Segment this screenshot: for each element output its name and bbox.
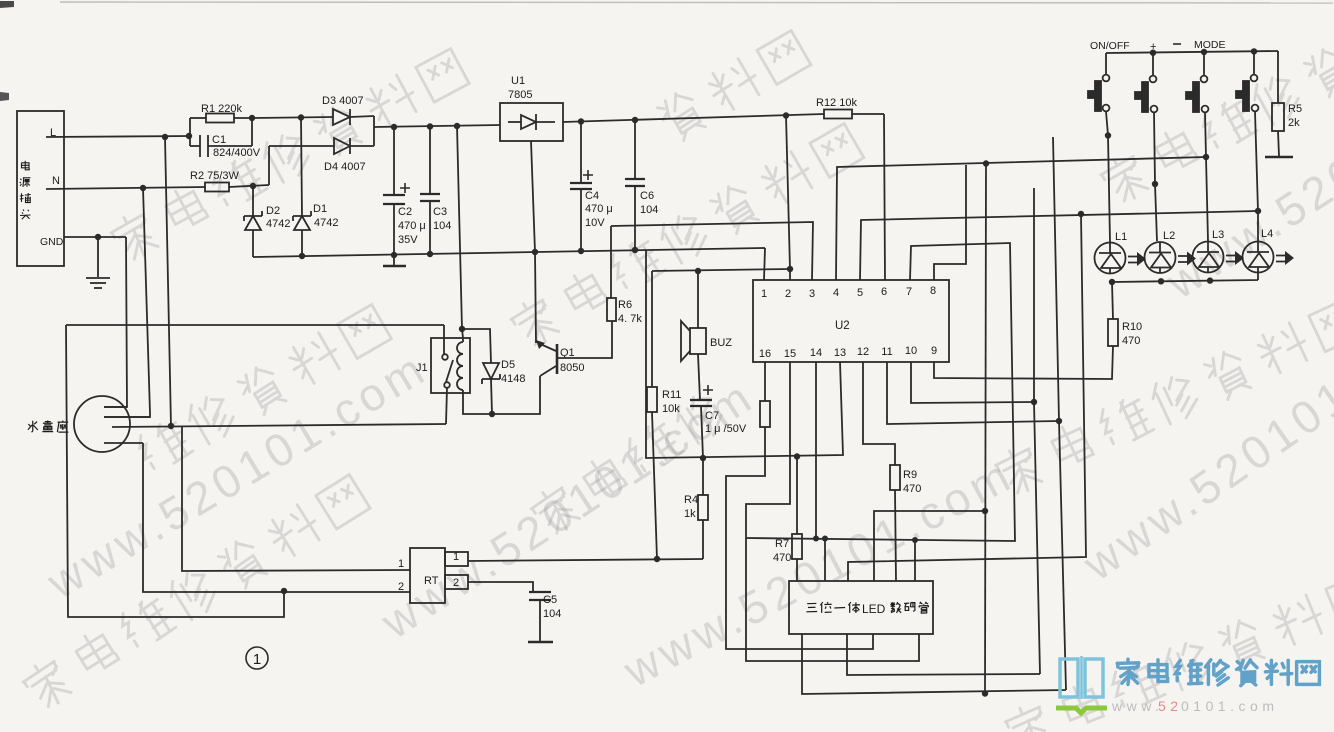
svg-text:R2 75/3W: R2 75/3W <box>190 170 240 182</box>
wire Q1 base to R6 <box>557 321 612 358</box>
node C4 top <box>578 118 584 124</box>
capacitor C2 <box>383 127 426 255</box>
switch S4 MODE <box>1236 51 1258 211</box>
scan smudge top-left <box>0 92 9 101</box>
resistor R7 <box>773 457 802 582</box>
resistor R4 <box>684 458 708 559</box>
svg-text:R10: R10 <box>1122 321 1142 333</box>
svg-text:4: 4 <box>833 287 839 299</box>
node C6 top <box>632 117 638 123</box>
wire U2 pin7 staircase to bottom maze <box>746 243 1015 541</box>
wire R6 top to U2 pin3 <box>611 222 813 280</box>
svg-text:MODE: MODE <box>1194 39 1226 51</box>
svg-text:7805: 7805 <box>508 89 532 101</box>
node pin11 on ONOFF riser <box>1056 418 1062 424</box>
svg-text:470: 470 <box>1122 335 1140 347</box>
node R11 bottom <box>654 556 660 562</box>
node L2 cathode <box>1158 278 1164 284</box>
node prong3 / L feed <box>168 423 174 429</box>
wire J1 contact top to left <box>66 325 444 354</box>
capacitor C6 <box>625 120 658 250</box>
wire prong4 down to RT pin2 <box>143 443 410 592</box>
wire U2 pin14 down <box>815 362 817 539</box>
node BUZ top <box>695 268 701 274</box>
wire pin4 net riser down <box>985 164 986 695</box>
capacitor C5 <box>528 592 561 642</box>
svg-text:3: 3 <box>809 288 815 300</box>
thermistor connector RT <box>398 548 468 603</box>
wire N to prong2 vertical <box>104 188 150 417</box>
node 985 bottom junction <box>982 690 988 696</box>
svg-text:C3: C3 <box>433 206 447 218</box>
node LED seg riser on maze line <box>822 536 828 542</box>
display box 三位一体LED数码管 <box>789 581 933 634</box>
wire display top pin riser d <box>914 540 916 581</box>
svg-text:2k: 2k <box>1288 117 1300 129</box>
wire U2 pin16 staircase <box>726 427 873 649</box>
wire BUZ supply line <box>652 269 790 271</box>
wire U2 pin10 to right riser <box>911 362 1034 403</box>
node D5 bottom <box>489 411 495 417</box>
svg-text:15: 15 <box>784 348 796 360</box>
svg-text:4742: 4742 <box>314 217 338 229</box>
svg-text:11: 11 <box>881 346 892 358</box>
wire relay coil top riser <box>457 126 463 338</box>
svg-text:0101.com: 0101.com <box>1181 698 1278 714</box>
svg-text:8: 8 <box>930 285 936 297</box>
wire L to prong3 vertical <box>165 137 171 426</box>
node R2 out / D2 top <box>250 183 256 189</box>
wire ON/OFF riser <box>1053 137 1066 690</box>
wire VDD riser to U2 pin2 <box>786 116 790 281</box>
label minus <box>1173 43 1181 45</box>
svg-text:J1: J1 <box>416 362 428 374</box>
wire left loop to RT pin2 line <box>66 325 284 617</box>
wire display seg riser c to pin4 net <box>874 511 985 581</box>
node plus bottom <box>1152 181 1158 187</box>
LED L4 <box>1243 228 1295 273</box>
svg-text:D2: D2 <box>266 205 280 217</box>
wire pin13 net horizontal <box>646 250 843 458</box>
wire ON/OFF to L1 <box>1108 136 1110 243</box>
svg-text:5: 5 <box>857 287 863 299</box>
zener D5 <box>462 329 525 414</box>
node R1 right <box>249 115 255 121</box>
wire D3/D4 join vertical <box>373 116 375 146</box>
node C3 top <box>427 123 433 129</box>
node U1 gnd on rail <box>532 249 538 255</box>
svg-text:R11: R11 <box>662 389 681 401</box>
node C4 bottom <box>578 248 584 254</box>
wire RT pin1 right to R11/R4 <box>468 559 703 561</box>
wire display bottom pin1 to ONOFF riser bottom <box>802 634 1066 694</box>
wire MODE to L4 <box>1257 211 1259 241</box>
svg-text:RT: RT <box>424 575 439 587</box>
svg-text:12: 12 <box>857 346 869 358</box>
svg-text:4. 7k: 4. 7k <box>618 313 642 325</box>
resistor R8 below pin16 <box>760 362 770 427</box>
wire plus to L2 <box>1155 184 1157 241</box>
svg-text:D4 4007: D4 4007 <box>324 161 366 173</box>
node C3 bottom <box>427 251 433 257</box>
svg-text:6: 6 <box>881 286 887 298</box>
svg-text:C4: C4 <box>585 190 599 202</box>
node on L to kettle <box>162 134 168 140</box>
node C6 bottom <box>632 247 638 253</box>
node riser d on maze line <box>912 537 918 543</box>
svg-text:+: + <box>1150 41 1156 53</box>
node on RT pin2 line <box>281 588 287 594</box>
scan edge line top <box>60 2 1333 3</box>
node D1 top <box>298 114 304 120</box>
svg-text:R12 10k: R12 10k <box>816 97 857 109</box>
wire LED cathode rail <box>1112 273 1258 282</box>
svg-text:1: 1 <box>398 558 404 570</box>
svg-text:D3 4007: D3 4007 <box>322 95 364 107</box>
svg-text:104: 104 <box>543 608 561 620</box>
wire D3/D4 node to U1 input <box>374 125 500 127</box>
svg-text:R5: R5 <box>1288 103 1302 115</box>
svg-text:470 μ: 470 μ <box>585 203 613 215</box>
svg-text:L4: L4 <box>1261 228 1273 240</box>
resistor R5 <box>1265 51 1302 157</box>
node rail b2 <box>1150 50 1156 56</box>
svg-text:104: 104 <box>433 220 451 232</box>
wire U2 pin4 to minus button <box>836 157 1206 280</box>
svg-text:35V: 35V <box>398 234 418 246</box>
wire top rail to D3 <box>252 117 333 118</box>
svg-text:2: 2 <box>785 288 791 300</box>
wire J1 contact bottom <box>446 388 447 424</box>
zener D1 <box>293 118 338 257</box>
svg-text:GND: GND <box>40 236 64 248</box>
wire U2 pin1 to ground rail <box>764 248 765 280</box>
logo green ribbon <box>1056 708 1107 713</box>
diode D3 <box>322 95 374 125</box>
svg-text:13: 13 <box>834 347 846 359</box>
wire U2 pin8 riser <box>934 165 966 280</box>
wire D4 anode down to R2 line <box>268 146 270 185</box>
node pin10 on plus riser <box>1031 399 1037 405</box>
capacitor C3 <box>420 127 451 255</box>
node MODE net riser <box>1078 211 1084 217</box>
wire plus riser <box>1034 188 1040 674</box>
node pin4 net riser <box>983 160 989 166</box>
svg-text:8050: 8050 <box>560 362 584 374</box>
wire L line <box>46 136 192 137</box>
LED L2 <box>1145 230 1197 274</box>
node L1 cathode <box>1109 279 1115 285</box>
svg-text:1 μ /50V: 1 μ /50V <box>705 423 747 435</box>
capacitor C4 <box>570 122 613 252</box>
zener D2 <box>244 186 290 257</box>
wire N line <box>46 187 205 189</box>
svg-text:10k: 10k <box>662 403 680 415</box>
wire U2 pin12 to R9 <box>863 362 895 465</box>
IC U2 <box>753 280 949 362</box>
capacitor C7 <box>690 354 747 458</box>
connector P1 power plug box <box>17 111 64 266</box>
svg-text:R4: R4 <box>684 494 698 506</box>
node L3 cathode <box>1207 277 1213 283</box>
svg-text:C5: C5 <box>543 594 557 606</box>
wire R12 to U2 pin6 <box>884 114 885 280</box>
svg-text:7: 7 <box>906 286 912 298</box>
wire U2 pin15 staircase <box>746 362 919 661</box>
wire display bottom pin2 to plus riser bottom <box>847 634 1040 675</box>
node rail b4 <box>1251 48 1257 54</box>
svg-text:9: 9 <box>931 345 937 357</box>
svg-text:D5: D5 <box>501 359 515 371</box>
resistor R9 <box>890 465 921 581</box>
svg-text:14: 14 <box>810 347 822 359</box>
logo book icon <box>1060 656 1103 699</box>
svg-text:1: 1 <box>253 651 261 668</box>
wire ground rail <box>253 248 765 257</box>
wire display seg riser a <box>824 539 826 582</box>
svg-text:www.: www. <box>1111 698 1163 714</box>
wire +5V rail <box>563 114 824 122</box>
svg-text:470 μ: 470 μ <box>398 220 426 232</box>
node D1 bottom <box>299 253 305 259</box>
svg-text:U2: U2 <box>835 320 850 332</box>
capacitor C1 <box>190 118 261 159</box>
svg-text:1k: 1k <box>684 508 696 520</box>
svg-text:2: 2 <box>398 581 404 593</box>
figure number 1 <box>246 647 268 669</box>
svg-text:52: 52 <box>1158 698 1183 714</box>
node C2 bottom <box>391 252 397 258</box>
wire U2 pin9 to R10 <box>934 346 1113 379</box>
node ON/OFF bottom <box>1105 132 1111 138</box>
svg-text:470: 470 <box>773 552 791 564</box>
relay J1 <box>416 338 470 393</box>
switch S1 ON/OFF <box>1088 53 1109 135</box>
svg-text:R1 220k: R1 220k <box>201 103 242 115</box>
resistor R6 <box>607 226 642 325</box>
node R7 riser on pin13 net <box>794 453 800 459</box>
svg-text:16: 16 <box>759 348 771 360</box>
svg-text:R7: R7 <box>775 538 789 550</box>
svg-text:4148: 4148 <box>501 373 525 385</box>
logo text 家电维修资料网 <box>1117 659 1319 685</box>
node rail b3 <box>1201 49 1207 55</box>
switch S3 minus <box>1186 52 1208 157</box>
svg-text:470: 470 <box>903 483 921 495</box>
wire U2 pin11 to right riser <box>887 362 1059 424</box>
svg-text:C6: C6 <box>640 190 654 202</box>
node coil top / D5 <box>459 326 465 332</box>
switch S2 plus <box>1135 53 1157 184</box>
node VDD riser <box>783 112 789 118</box>
svg-text:N: N <box>52 175 60 187</box>
kettle base 水壶座 <box>28 396 150 452</box>
node on L to R1/C1 <box>186 133 192 139</box>
wire GND to kettle prong1 <box>104 237 127 407</box>
svg-text:10V: 10V <box>585 217 605 229</box>
label 电源插头 <box>20 161 31 220</box>
svg-text:U1: U1 <box>511 75 525 87</box>
svg-text:C7: C7 <box>705 410 719 422</box>
ground symbol under C2 <box>383 255 406 266</box>
svg-text:104: 104 <box>640 204 658 216</box>
LED L1 <box>1095 231 1147 274</box>
diode D4 <box>269 138 374 173</box>
svg-text:4742: 4742 <box>266 218 290 230</box>
resistor R12 <box>816 97 884 119</box>
resistor R1 <box>190 103 252 123</box>
resistor R2 <box>190 170 269 192</box>
svg-text:1: 1 <box>453 551 459 563</box>
svg-text:1: 1 <box>761 288 767 300</box>
transistor Q1 <box>536 340 584 376</box>
node C2 top <box>391 124 397 130</box>
svg-text:R6: R6 <box>618 299 632 311</box>
resistor R10 <box>1108 282 1142 347</box>
svg-text:2: 2 <box>453 577 459 589</box>
svg-text:C2: C2 <box>398 206 412 218</box>
svg-text:D1: D1 <box>313 203 327 215</box>
wire coil bottom to Q1 emitter <box>463 376 540 414</box>
wire RT pin2 right to C5 <box>468 582 533 592</box>
wire kettle prong3 to relay contact <box>112 424 446 427</box>
wire display seg riser b to MODE net <box>848 214 1086 581</box>
node to relay branch <box>454 123 460 129</box>
node on pin4 riser <box>982 508 988 514</box>
svg-text:L1: L1 <box>1115 231 1127 243</box>
regulator U1 <box>500 75 563 141</box>
wire R1/C1 left vertical <box>189 118 191 146</box>
wire U2 pin5 to MODE button <box>860 211 1258 280</box>
wire U1 ground stub / Q1 collector riser <box>531 141 536 343</box>
svg-text:BUZ: BUZ <box>710 337 732 349</box>
ground symbol at power plug <box>64 234 126 288</box>
node MODE bottom <box>1255 208 1261 214</box>
wire minus to L3 <box>1206 157 1208 241</box>
svg-text:L3: L3 <box>1212 229 1224 241</box>
svg-text:R9: R9 <box>903 469 917 481</box>
node pin14 on maze line <box>813 536 819 542</box>
node N to kettle <box>140 185 146 191</box>
resistor R11 <box>647 271 681 559</box>
svg-text:10: 10 <box>905 345 917 357</box>
logo url www.520101.com <box>1111 698 1278 714</box>
svg-text:824/400V: 824/400V <box>213 147 261 159</box>
node BUZ line / pin2 <box>787 266 793 272</box>
button top rail <box>1106 51 1278 53</box>
wire prong3 down to RT pin1 <box>182 426 410 571</box>
LED L3 <box>1193 229 1245 273</box>
node C7 bottom / R4 top <box>700 455 706 461</box>
svg-text:LED: LED <box>862 602 886 616</box>
node minus bottom <box>1203 154 1209 160</box>
svg-text:C1: C1 <box>212 134 226 146</box>
svg-text:L2: L2 <box>1163 230 1175 242</box>
svg-text:ON/OFF: ON/OFF <box>1090 40 1130 52</box>
buzzer BUZ <box>681 271 732 361</box>
